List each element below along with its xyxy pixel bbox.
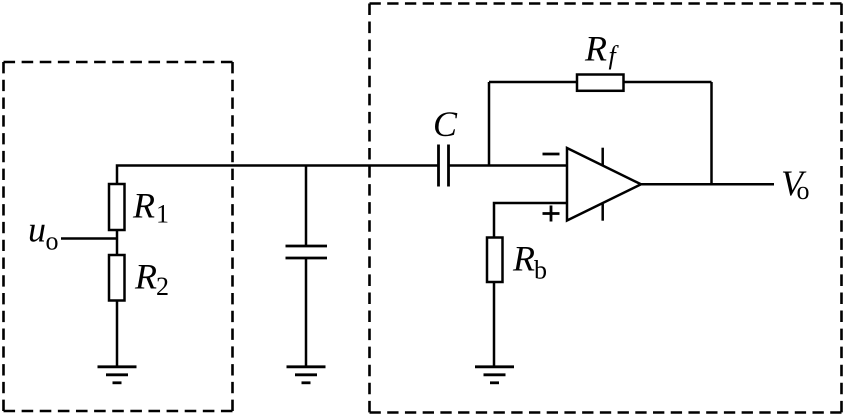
wire: input u_o <box>61 237 117 240</box>
wire: op-amp output to Vo <box>641 183 774 186</box>
wire: capacitor C to op-amp inverting input <box>449 164 568 167</box>
wire: shunt capacitor bottom lead <box>305 258 308 367</box>
wire: R2 to ground <box>116 301 119 367</box>
svg-text:o: o <box>797 176 810 205</box>
ground (under R2) <box>98 367 137 383</box>
svg-text:b: b <box>534 255 547 284</box>
wire: feedback right vertical <box>710 82 713 184</box>
wire: non-inverting input <box>494 203 567 238</box>
wire: feedback top left horizontal <box>489 81 577 84</box>
svg-text:R: R <box>512 238 535 278</box>
wire: between R1 and R2 <box>116 230 119 256</box>
resistor Rb <box>487 238 503 283</box>
wire: Rb to ground <box>493 282 496 367</box>
left dashed box <box>4 62 233 411</box>
svg-text:1: 1 <box>156 200 169 229</box>
svg-text:C: C <box>433 104 458 144</box>
svg-text:2: 2 <box>156 272 169 301</box>
capacitor C2 (shunt) <box>286 246 328 258</box>
op-amp minus sign <box>543 153 560 156</box>
svg-text:R: R <box>584 28 607 68</box>
svg-text:R: R <box>134 257 157 297</box>
op-amp plus sign <box>543 206 560 222</box>
wire: shunt capacitor top lead <box>305 166 308 247</box>
wire: main horizontal from divider to capacitor C <box>117 166 439 185</box>
resistor R2 <box>109 255 125 301</box>
svg-text:o: o <box>46 227 59 256</box>
wire: feedback top right horizontal <box>624 81 712 84</box>
ground (under Rb) <box>475 367 514 383</box>
op-amp U1 <box>567 148 641 221</box>
op-amp phase tick top <box>601 148 604 165</box>
op-amp phase tick bottom <box>601 204 604 221</box>
right dashed box <box>370 4 842 413</box>
resistor R1 <box>109 184 125 230</box>
svg-text:u: u <box>28 210 46 250</box>
capacitor C <box>439 145 449 187</box>
wire: feedback left vertical <box>488 82 491 166</box>
resistor Rf <box>577 75 624 91</box>
ground (under shunt capacitor) <box>287 367 326 383</box>
svg-text:R: R <box>132 186 155 226</box>
